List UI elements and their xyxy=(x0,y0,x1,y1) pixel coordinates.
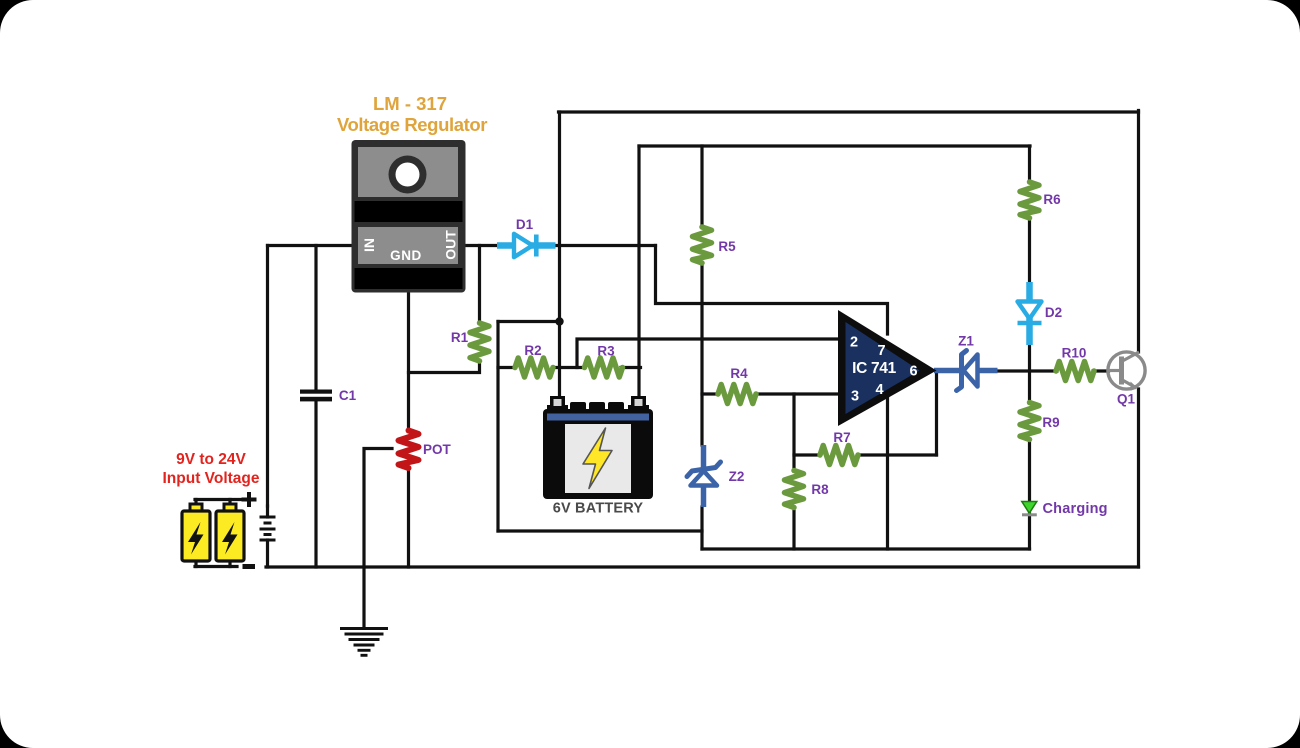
svg-text:IN: IN xyxy=(361,238,377,252)
transistor Q1 xyxy=(1108,352,1145,391)
wire C1 bottom xyxy=(314,402,317,568)
svg-text:3: 3 xyxy=(851,389,859,405)
wire vertical x498 R2-left branch xyxy=(496,322,499,532)
input battery cells symbol xyxy=(260,517,276,540)
wire R7 left lead xyxy=(794,453,820,456)
wire R6 to D2 xyxy=(1028,218,1031,282)
wire input battery bottom link xyxy=(195,565,237,568)
wire Z1 to R10 xyxy=(997,369,1057,372)
diode D2 xyxy=(1018,282,1042,345)
svg-text:R9: R9 xyxy=(1042,415,1059,430)
svg-text:POT: POT xyxy=(423,442,452,457)
plus polarity mark xyxy=(242,492,257,507)
wire Z2 bottom stub xyxy=(700,507,703,549)
resistor R9 xyxy=(1020,403,1039,440)
diode D1 xyxy=(497,234,556,257)
svg-text:R2: R2 xyxy=(524,343,541,358)
wire POT wiper to ground xyxy=(364,449,392,629)
wire C1 top xyxy=(314,246,317,390)
wire R5 top lead xyxy=(700,146,703,227)
svg-text:LM - 317: LM - 317 xyxy=(373,93,447,114)
wire D1 cathode run xyxy=(555,244,656,247)
svg-text:R3: R3 xyxy=(597,344,615,359)
svg-text:R1: R1 xyxy=(451,330,469,345)
wire IN pin xyxy=(268,244,352,247)
resistor R3 xyxy=(585,358,623,377)
wire y531 to Z2 bottom xyxy=(498,529,702,532)
wire bottom rail xyxy=(266,565,1139,568)
svg-text:Z1: Z1 xyxy=(958,334,974,349)
svg-text:Charging: Charging xyxy=(1043,501,1108,517)
potentiometer POT xyxy=(399,431,419,469)
wire R4 right lead to pin3 xyxy=(757,392,839,395)
wire input battery bottom stubs xyxy=(196,561,230,567)
wire R6 top lead xyxy=(1028,146,1031,182)
svg-text:GND: GND xyxy=(390,248,422,263)
resistor R10 xyxy=(1056,362,1094,381)
svg-text:IC 741: IC 741 xyxy=(852,360,897,377)
resistor R1 xyxy=(470,323,489,361)
wire pin7 feed xyxy=(656,246,888,335)
wire OUT pin to D1 xyxy=(465,244,497,247)
battery B1 6V xyxy=(543,396,653,499)
wire left vertical to cells xyxy=(266,246,269,507)
wire R2-R3 middle xyxy=(553,366,585,369)
svg-text:R7: R7 xyxy=(833,430,850,445)
wire R1 bottom to GND line xyxy=(409,361,480,373)
wire R1 top lead xyxy=(478,246,481,324)
wire second top rail xyxy=(639,144,1030,147)
wire R8 top lead xyxy=(792,394,795,471)
wire output feedback down xyxy=(935,371,938,456)
svg-text:D1: D1 xyxy=(516,217,534,232)
svg-text:2: 2 xyxy=(850,335,858,351)
svg-text:R10: R10 xyxy=(1062,346,1087,361)
wire D2 to R9 through junction xyxy=(1028,345,1031,403)
resistor R6 xyxy=(1020,182,1039,218)
minus polarity mark xyxy=(243,564,256,569)
ground xyxy=(340,629,388,656)
svg-text:7: 7 xyxy=(877,343,885,359)
wire top rail xyxy=(559,110,1139,113)
wire input battery top stubs xyxy=(196,500,230,505)
wire R4 left lead xyxy=(702,392,717,395)
wire LED to rail549 xyxy=(1028,514,1031,549)
wire right rail upper xyxy=(1137,111,1140,353)
resistor R5 xyxy=(693,227,712,263)
op-amp U1 IC741 xyxy=(838,310,937,426)
wire right rail lower xyxy=(1137,389,1140,567)
wire R7 right lead xyxy=(858,453,937,456)
wire pin2 feed xyxy=(577,339,839,368)
wire GND pin vertical xyxy=(407,291,410,431)
svg-text:C1: C1 xyxy=(339,388,357,403)
wire cell stem top xyxy=(266,506,269,517)
svg-text:9V to 24V: 9V to 24V xyxy=(176,451,246,468)
svg-text:Q1: Q1 xyxy=(1117,392,1136,407)
svg-text:D2: D2 xyxy=(1045,305,1062,320)
zener Z2 xyxy=(687,445,721,507)
wire R5 bottom to Z2 xyxy=(700,263,703,445)
svg-text:4: 4 xyxy=(875,382,883,398)
wire R9 to LED xyxy=(1028,440,1031,501)
resistor R7 xyxy=(820,446,858,465)
wire R8 bottom lead xyxy=(792,508,795,549)
svg-text:6V BATTERY: 6V BATTERY xyxy=(553,501,644,517)
resistor R2 xyxy=(515,358,553,377)
capacitor C1 xyxy=(300,390,332,402)
zener Z1 xyxy=(934,351,998,391)
svg-text:R6: R6 xyxy=(1043,192,1061,207)
wire R10 to Q1 base xyxy=(1093,369,1109,372)
svg-text:6: 6 xyxy=(909,364,917,380)
wire cell stem bottom xyxy=(266,540,269,567)
wire dot branch horizontal xyxy=(498,320,560,323)
wire rail y549 xyxy=(702,547,1030,550)
svg-text:R5: R5 xyxy=(718,239,736,254)
LED charging indicator xyxy=(1022,502,1037,515)
wire POT bottom xyxy=(407,468,410,567)
resistor R8 xyxy=(785,471,804,508)
svg-text:OUT: OUT xyxy=(443,230,459,260)
wire vertical x639 rail2 to battery right terminal xyxy=(637,146,640,398)
svg-text:Z2: Z2 xyxy=(729,469,745,484)
input battery pack 9V-24V xyxy=(182,504,244,561)
svg-text:Input Voltage: Input Voltage xyxy=(162,470,259,487)
wire input battery top link xyxy=(195,498,242,501)
wire R3 right lead xyxy=(621,366,641,369)
resistor R4 xyxy=(718,385,756,404)
regulator U2 LM317 package xyxy=(352,140,466,293)
wire pin4 down xyxy=(886,396,889,549)
svg-text:R4: R4 xyxy=(730,366,748,381)
svg-text:Voltage Regulator: Voltage Regulator xyxy=(337,114,487,135)
svg-text:R8: R8 xyxy=(811,482,829,497)
wire vertical x559 top-rail to battery plus terminal xyxy=(558,112,561,398)
node junction dot xyxy=(555,317,563,325)
wire R2 left lead xyxy=(498,366,515,369)
